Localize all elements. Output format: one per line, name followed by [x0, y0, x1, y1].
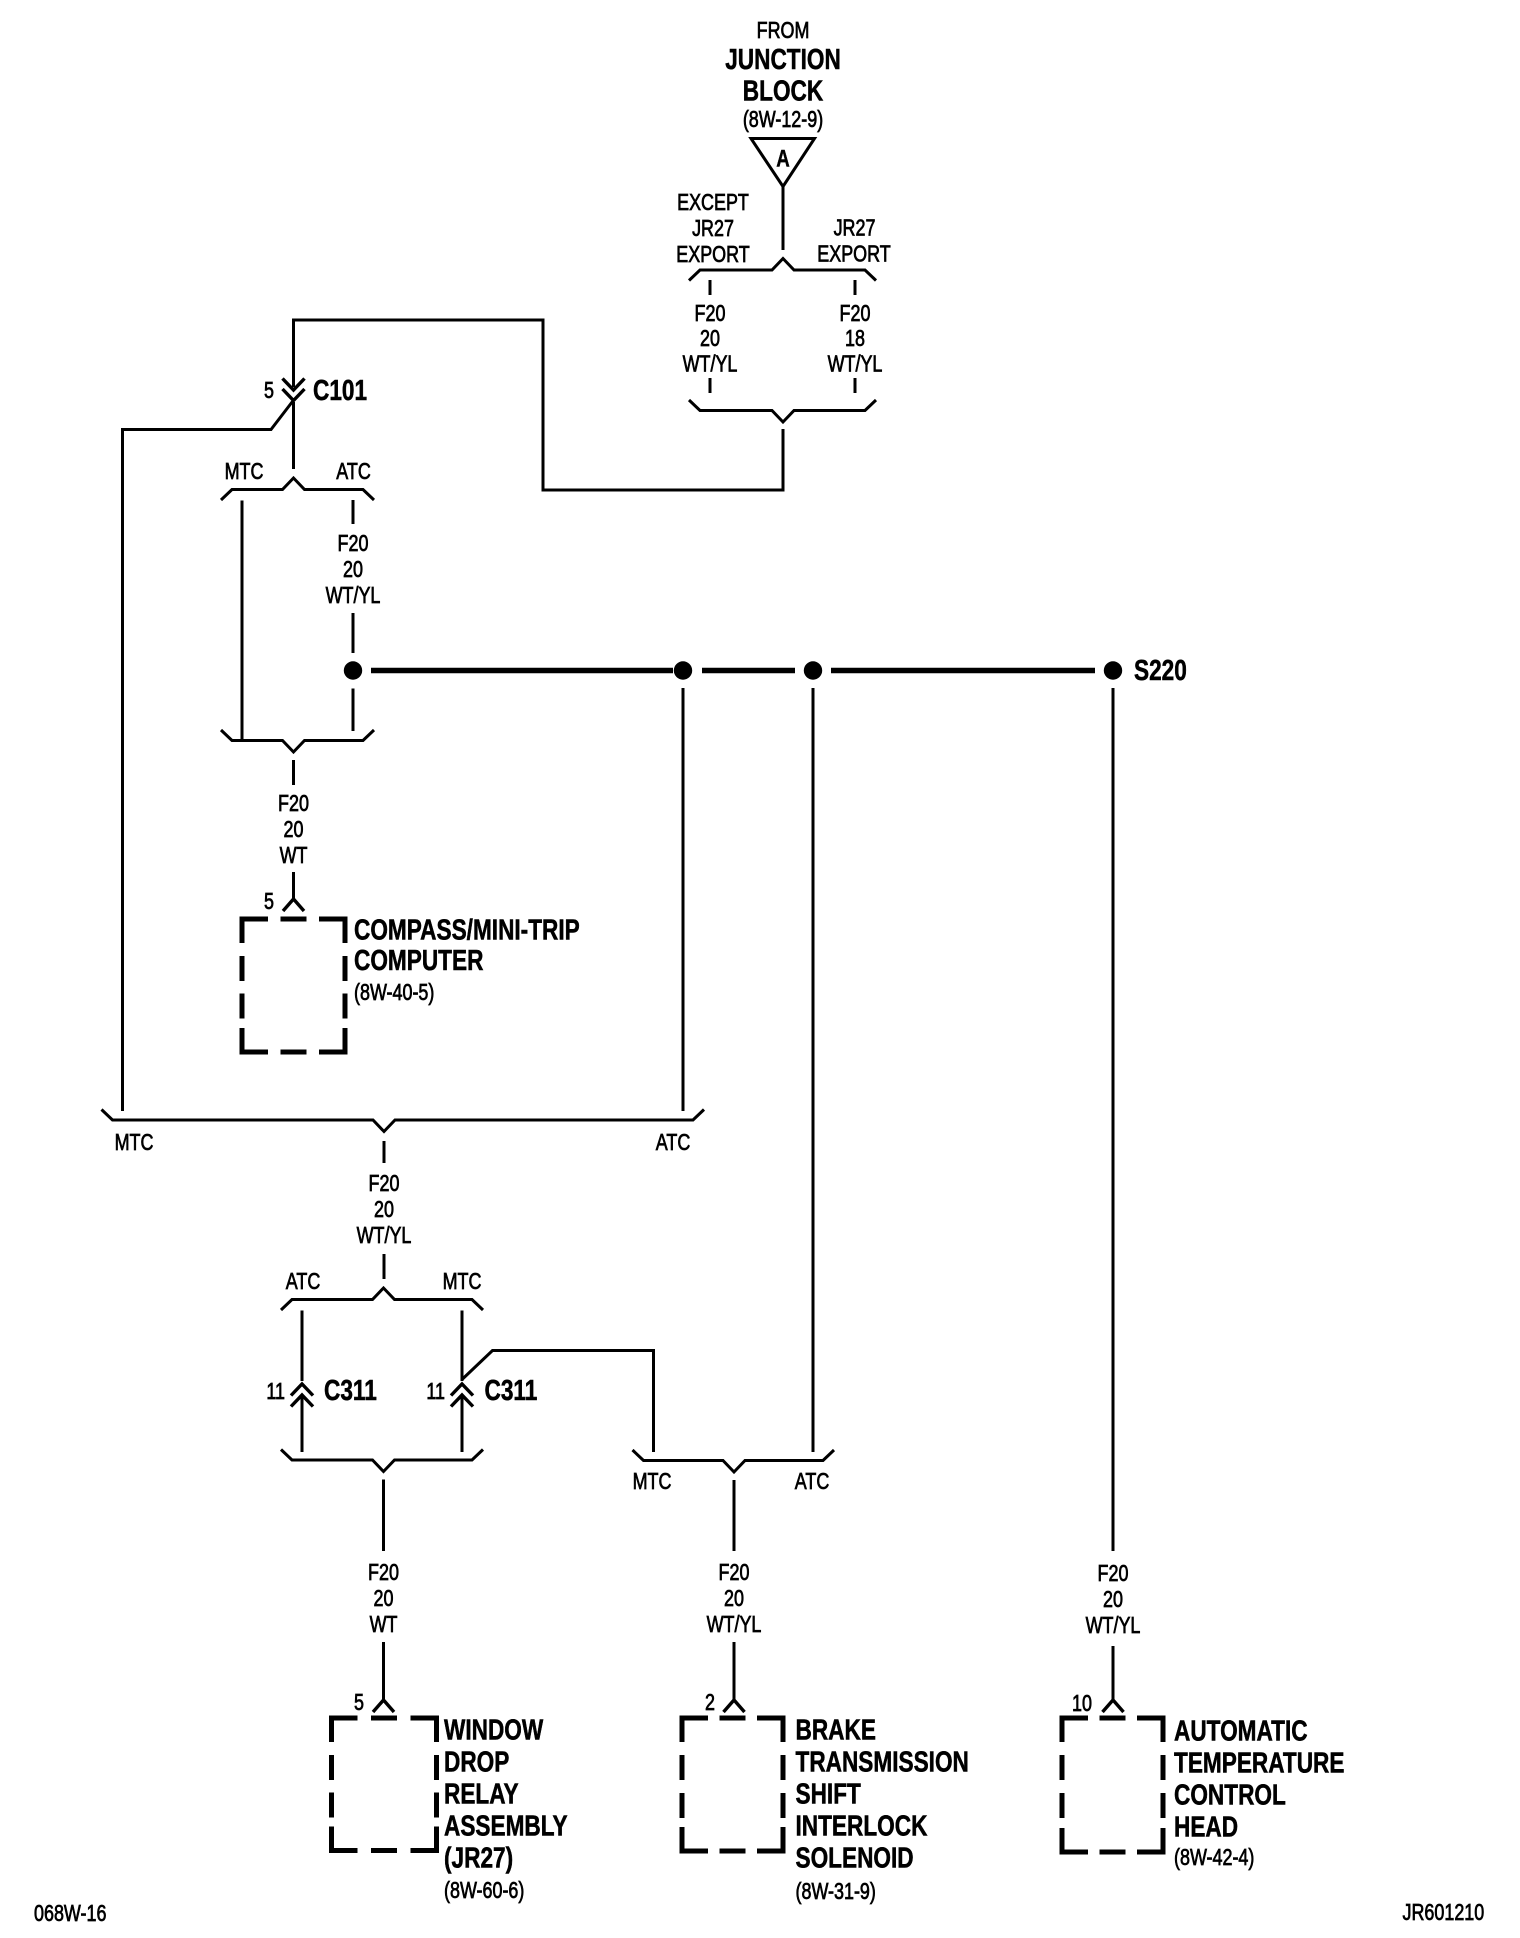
component label AUTOMATIC TEMPERATURE CONTROL HEAD (8W-42-4) — [1174, 1714, 1344, 1871]
svg-text:C311: C311 — [324, 1373, 377, 1406]
wire from C101 down to MTC/ATC split — [292, 402, 295, 469]
svg-text:EXCEPT: EXCEPT — [677, 190, 749, 216]
wire label F20 20 WT/YL (merged) — [357, 1171, 412, 1249]
svg-text:TEMPERATURE: TEMPERATURE — [1174, 1746, 1344, 1779]
node label JR27 EXPORT — [817, 215, 891, 267]
node label FROM JUNCTION BLOCK (8W-12-9) — [725, 18, 841, 133]
wire from right C311 to MTC bracket (brake) — [462, 1351, 654, 1453]
wire below brake merge bracket — [733, 1480, 736, 1551]
splice bus wire S220 — [371, 668, 1095, 674]
junction dot S220 at x=1113 — [1104, 661, 1122, 679]
svg-text:MTC: MTC — [115, 1130, 154, 1156]
svg-text:20: 20 — [284, 817, 304, 843]
wire from S220 down to ATC head — [1112, 688, 1115, 1551]
merge bracket above compass wire — [221, 730, 374, 752]
wire below left C311 — [301, 1395, 304, 1452]
svg-text:CONTROL: CONTROL — [1174, 1778, 1286, 1811]
svg-text:20: 20 — [700, 326, 720, 352]
svg-text:(8W-60-6): (8W-60-6) — [444, 1878, 524, 1904]
component label COMPASS/MINI-TRIP COMPUTER (8W-40-5) — [354, 913, 580, 1006]
pin symbol at compass — [283, 899, 304, 911]
connector C311 right (double chevron) — [451, 1384, 473, 1407]
svg-text:TRANSMISSION: TRANSMISSION — [796, 1745, 969, 1778]
junction dot on splice bus at x=683 — [674, 661, 692, 679]
svg-text:ATC: ATC — [656, 1130, 691, 1156]
svg-text:EXPORT: EXPORT — [676, 242, 750, 268]
svg-text:F20: F20 — [369, 1171, 400, 1197]
svg-text:068W-16: 068W-16 — [34, 1901, 106, 1927]
wire segment ATC branch middle — [352, 613, 355, 653]
svg-text:2: 2 — [705, 1690, 715, 1716]
wire into window drop relay pin — [382, 1642, 385, 1700]
wire segment right branch upper — [854, 280, 857, 295]
wire from connector A down to split bracket — [782, 187, 785, 251]
svg-text:20: 20 — [374, 1586, 394, 1612]
wire below big merge bracket — [383, 1141, 386, 1163]
wire segment ATC branch lower — [352, 689, 355, 732]
wire below C311 merge bracket — [382, 1480, 385, 1552]
svg-text:JUNCTION: JUNCTION — [725, 42, 841, 75]
svg-text:JR601210: JR601210 — [1403, 1900, 1485, 1926]
wire label F20 20 WT/YL (ATC branch) — [326, 531, 381, 609]
svg-text:MTC: MTC — [225, 459, 264, 485]
svg-text:20: 20 — [374, 1197, 394, 1223]
svg-text:20: 20 — [1103, 1587, 1123, 1613]
svg-text:(JR27): (JR27) — [444, 1841, 513, 1874]
svg-text:SHIFT: SHIFT — [796, 1777, 861, 1810]
svg-text:WT: WT — [370, 1612, 398, 1638]
wire MTC branch down to merge bracket — [241, 501, 244, 741]
svg-text:F20: F20 — [719, 1560, 750, 1586]
junction dot on splice bus at x=353 — [344, 661, 362, 679]
svg-text:MTC: MTC — [443, 1269, 482, 1295]
svg-text:ATC: ATC — [336, 459, 371, 485]
wire label F20 20 WT/YL (brake solenoid feed) — [707, 1560, 762, 1638]
svg-text:5: 5 — [264, 889, 274, 915]
wire label F20 20 WT (window drop relay feed) — [368, 1560, 399, 1638]
svg-text:WT: WT — [280, 843, 308, 869]
wire into C311 split bracket — [383, 1254, 386, 1279]
wire ATC branch to left C311 — [301, 1311, 304, 1382]
merge bracket below C311 — [281, 1450, 483, 1472]
component box COMPASS/MINI-TRIP COMPUTER (dashed) — [242, 919, 345, 1052]
svg-text:DROP: DROP — [444, 1745, 509, 1778]
svg-text:WT/YL: WT/YL — [683, 351, 738, 377]
wire below right C311 — [461, 1395, 464, 1452]
wire from bus dot x=683 down to big merge bracket — [682, 688, 685, 1111]
svg-text:F20: F20 — [695, 301, 726, 327]
svg-text:(8W-42-4): (8W-42-4) — [1174, 1845, 1254, 1871]
svg-text:11: 11 — [266, 1379, 285, 1405]
split bracket ATC/MTC above C311 — [281, 1288, 483, 1310]
svg-text:C311: C311 — [485, 1373, 538, 1406]
pin symbol at ATC head — [1103, 1700, 1124, 1712]
wire segment left branch lower — [709, 378, 712, 393]
wire segment ATC branch upper — [352, 500, 355, 524]
svg-text:A: A — [776, 145, 790, 172]
wire into brake solenoid pin — [733, 1642, 736, 1700]
svg-text:FROM: FROM — [757, 18, 810, 44]
svg-text:20: 20 — [343, 557, 363, 583]
pin symbol at window drop relay — [373, 1700, 394, 1712]
wire from C101 to left rail (MTC) — [123, 402, 293, 1112]
svg-text:BRAKE: BRAKE — [796, 1713, 876, 1746]
component label BRAKE TRANSMISSION SHIFT INTERLOCK SOLENOID (8W-31-9) — [796, 1713, 969, 1905]
svg-text:WT/YL: WT/YL — [707, 1612, 762, 1638]
wire label F20 18 WT/YL (right branch) — [828, 301, 883, 377]
svg-text:F20: F20 — [338, 531, 369, 557]
wire label F20 20 WT/YL (ATC head feed) — [1086, 1561, 1141, 1639]
svg-text:5: 5 — [264, 378, 274, 404]
svg-text:RELAY: RELAY — [444, 1777, 519, 1810]
off-page connector triangle A — [751, 139, 815, 187]
svg-text:20: 20 — [724, 1586, 744, 1612]
svg-text:BLOCK: BLOCK — [743, 74, 824, 107]
svg-text:WT/YL: WT/YL — [1086, 1613, 1141, 1639]
svg-text:WT/YL: WT/YL — [357, 1223, 412, 1249]
wire from bus dot x=813 down to MTC/ATC merge bracket — [812, 688, 815, 1452]
wire into compass pin — [292, 872, 295, 899]
split bracket MTC/ATC under C101 — [221, 478, 374, 500]
svg-text:ASSEMBLY: ASSEMBLY — [444, 1809, 568, 1842]
merge bracket top — [689, 400, 876, 422]
svg-text:C101: C101 — [313, 373, 367, 406]
split bracket top (EXCEPT JR27 EXPORT / JR27 EXPORT) — [689, 259, 876, 281]
big merge bracket MTC/ATC — [102, 1110, 705, 1132]
svg-text:MTC: MTC — [633, 1469, 672, 1495]
svg-text:WT/YL: WT/YL — [828, 351, 883, 377]
wire into ATC head pin — [1112, 1646, 1115, 1700]
wire MTC branch to right C311 — [461, 1311, 464, 1382]
svg-text:COMPASS/MINI-TRIP: COMPASS/MINI-TRIP — [354, 913, 580, 946]
svg-text:JR27: JR27 — [692, 216, 734, 242]
svg-text:F20: F20 — [278, 791, 309, 817]
svg-text:SOLENOID: SOLENOID — [796, 1841, 914, 1874]
wire from merge bracket down — [292, 760, 295, 785]
svg-text:10: 10 — [1072, 1691, 1092, 1717]
svg-text:ATC: ATC — [795, 1469, 830, 1495]
wire segment right branch lower — [854, 378, 857, 393]
wire label F20 20 WT/YL (left branch) — [683, 301, 738, 377]
svg-text:COMPUTER: COMPUTER — [354, 943, 484, 976]
svg-text:(8W-31-9): (8W-31-9) — [796, 1879, 876, 1905]
connector C101 (double chevron) — [283, 379, 305, 401]
svg-text:F20: F20 — [1098, 1561, 1129, 1587]
svg-text:WT/YL: WT/YL — [326, 583, 381, 609]
svg-text:5: 5 — [354, 1690, 364, 1716]
svg-text:F20: F20 — [840, 301, 871, 327]
merge bracket MTC/ATC above brake solenoid — [633, 1450, 835, 1472]
component label WINDOW DROP RELAY ASSEMBLY (JR27) (8W-60-6) — [444, 1713, 568, 1904]
svg-text:INTERLOCK: INTERLOCK — [796, 1809, 928, 1842]
svg-text:ATC: ATC — [286, 1269, 321, 1295]
svg-text:JR27: JR27 — [834, 215, 876, 241]
svg-text:WINDOW: WINDOW — [444, 1713, 544, 1746]
svg-text:11: 11 — [426, 1379, 445, 1405]
wire from top merge bracket to C101 — [294, 320, 784, 490]
svg-text:EXPORT: EXPORT — [817, 241, 891, 267]
svg-text:HEAD: HEAD — [1174, 1810, 1238, 1843]
component box BRAKE TRANSMISSION SHIFT INTERLOCK SOLENOID (dashed) — [682, 1718, 783, 1851]
svg-text:AUTOMATIC: AUTOMATIC — [1174, 1714, 1308, 1747]
svg-text:18: 18 — [845, 326, 865, 352]
svg-text:(8W-12-9): (8W-12-9) — [743, 107, 823, 133]
wire segment left branch upper — [709, 280, 712, 295]
svg-text:S220: S220 — [1134, 653, 1187, 686]
component box AUTOMATIC TEMPERATURE CONTROL HEAD (dashed) — [1062, 1718, 1163, 1852]
svg-text:(8W-40-5): (8W-40-5) — [354, 980, 434, 1006]
node label EXCEPT JR27 EXPORT — [676, 190, 750, 268]
connector C311 left (double chevron) — [291, 1384, 313, 1407]
wire label F20 20 WT (compass feed) — [278, 791, 309, 869]
component box WINDOW DROP RELAY ASSEMBLY (dashed) — [332, 1718, 437, 1851]
junction dot on splice bus at x=813 — [804, 661, 822, 679]
pin symbol at brake solenoid — [724, 1700, 745, 1712]
svg-text:F20: F20 — [368, 1560, 399, 1586]
